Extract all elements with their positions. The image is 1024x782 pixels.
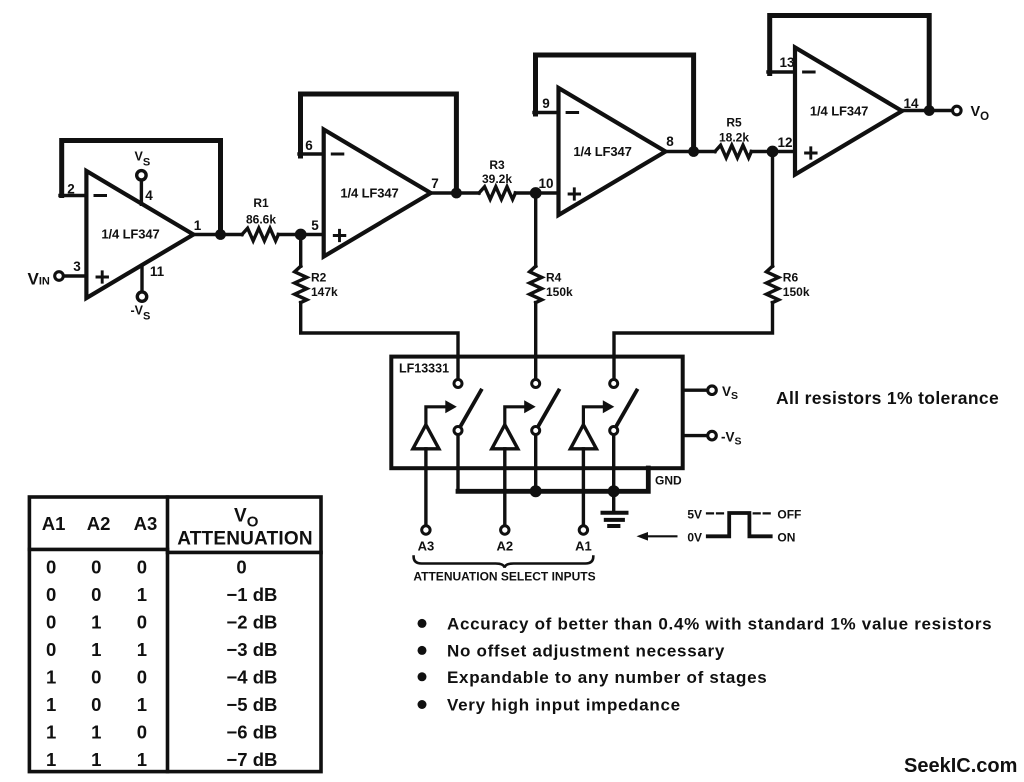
svg-text:0: 0 xyxy=(236,557,246,578)
supply terminals of LF13331 xyxy=(683,384,742,448)
svg-text:0: 0 xyxy=(46,557,56,578)
OPAMP2 xyxy=(299,94,456,257)
svg-text:150k: 150k xyxy=(783,285,810,299)
terminal A2 xyxy=(501,526,509,534)
wire inverting stub U1D pin13 xyxy=(768,70,795,73)
svg-text:0: 0 xyxy=(137,612,147,633)
junction dot feedback U1D xyxy=(924,105,935,116)
switch S2 throw xyxy=(532,427,540,435)
wire feedback rail U1D xyxy=(770,16,930,111)
table divider vertical xyxy=(166,497,170,772)
junction dot feedback U1A xyxy=(215,229,226,240)
switch S2 arm xyxy=(539,391,559,425)
terminal -VS U1A xyxy=(140,265,143,291)
buffer B1 triangle xyxy=(570,425,596,449)
svg-text:R3: R3 xyxy=(489,158,505,172)
svg-text:11: 11 xyxy=(150,264,165,279)
wire op2 output xyxy=(431,191,479,194)
plus sign U1C xyxy=(569,189,580,199)
vertical branch R2 xyxy=(295,235,458,379)
svg-text:1: 1 xyxy=(137,584,147,605)
wire feedback rail U1A xyxy=(62,141,221,235)
svg-text:0: 0 xyxy=(137,667,147,688)
ground symbol xyxy=(612,491,615,512)
wire B1 to A1 xyxy=(582,449,585,525)
wire VS terminal xyxy=(683,389,707,392)
bullet 2 dot xyxy=(418,646,427,655)
wire R2 to switch S1 xyxy=(301,303,458,379)
svg-text:All resistors 1% tolerance: All resistors 1% tolerance xyxy=(776,388,999,408)
ground bus xyxy=(458,468,682,526)
svg-text:1: 1 xyxy=(91,749,101,770)
svg-text:1: 1 xyxy=(91,722,101,743)
plus sign U1A xyxy=(97,272,108,282)
terminal VS U1A xyxy=(140,181,143,204)
minus sign U1A xyxy=(95,194,106,197)
minus sign U1B xyxy=(332,153,343,156)
svg-text:0: 0 xyxy=(46,639,56,660)
svg-text:A3: A3 xyxy=(418,539,435,554)
svg-text:13: 13 xyxy=(779,55,795,70)
switch S3 xyxy=(570,380,636,525)
bullet 3 dot xyxy=(418,672,427,681)
svg-text:Accuracy of better than 0.4% w: Accuracy of better than 0.4% with standa… xyxy=(447,615,992,634)
features list xyxy=(418,615,993,715)
wire node2 to R4 xyxy=(534,193,537,266)
node2: op2 output line xyxy=(431,158,559,199)
svg-text:−6 dB: −6 dB xyxy=(227,722,278,743)
svg-text:Very high input impedance: Very high input impedance xyxy=(447,696,681,715)
terminal VS xyxy=(708,386,717,395)
bullet 4 dot xyxy=(418,700,427,709)
table outer box xyxy=(29,497,321,772)
OPAMP3 xyxy=(534,55,694,215)
svg-text:1: 1 xyxy=(137,639,147,660)
switch S3 throw xyxy=(610,427,618,435)
terminal A3 xyxy=(422,526,430,534)
svg-text:1: 1 xyxy=(137,694,147,715)
wire S2 throw down xyxy=(534,435,537,491)
wire B3 to A3 xyxy=(424,449,427,525)
svg-text:Expandable to any number of st: Expandable to any number of stages xyxy=(447,668,767,687)
svg-text:−3 dB: −3 dB xyxy=(227,639,278,660)
svg-text:39.2k: 39.2k xyxy=(482,172,512,186)
buffer B3 triangle xyxy=(413,425,439,449)
svg-text:0: 0 xyxy=(91,694,101,715)
wire R4 to switch S2 xyxy=(534,303,537,379)
analog switch IC LF13331 box xyxy=(391,357,682,469)
svg-text:R5: R5 xyxy=(726,116,742,130)
wire R5 to op4 xyxy=(751,150,795,153)
wire inverting stub U1B pin6 xyxy=(299,152,324,155)
svg-text:A2: A2 xyxy=(87,513,111,534)
wire inverting stub U1C pin9 xyxy=(534,111,559,114)
switch S1 throw xyxy=(454,427,462,435)
resistor R5 xyxy=(715,145,751,158)
svg-text:1/4 LF347: 1/4 LF347 xyxy=(101,227,159,242)
wire R6 to switch S3 xyxy=(614,303,773,379)
svg-text:14: 14 xyxy=(903,96,919,111)
svg-text:1: 1 xyxy=(91,612,101,633)
svg-text:1/4 LF347: 1/4 LF347 xyxy=(810,104,868,119)
junction dot R6 tap xyxy=(767,146,779,158)
svg-text:LF13331: LF13331 xyxy=(399,362,449,376)
junction dot feedback U1B xyxy=(451,188,462,199)
junction dot bus S3 xyxy=(608,485,620,497)
svg-text:3: 3 xyxy=(73,259,81,274)
buffer B2 arrow xyxy=(505,407,526,425)
wire R3 to op3 xyxy=(515,191,558,194)
svg-text:8: 8 xyxy=(666,134,674,149)
svg-text:ON: ON xyxy=(777,531,795,545)
minus sign U1D xyxy=(804,71,815,74)
svg-text:A1: A1 xyxy=(42,513,66,534)
wire VIN to pin3 xyxy=(65,274,87,277)
svg-text:10: 10 xyxy=(538,176,553,191)
svg-text:5: 5 xyxy=(311,218,319,233)
terminal -VS xyxy=(708,431,717,440)
svg-text:0: 0 xyxy=(91,584,101,605)
op-amp U1D triangle xyxy=(795,48,902,175)
node1: op1 output line xyxy=(193,196,323,241)
switch S1 xyxy=(413,380,481,525)
svg-text:6: 6 xyxy=(305,138,313,153)
svg-text:2: 2 xyxy=(67,182,75,197)
OPAMP4 xyxy=(768,16,929,175)
wire S1 throw down xyxy=(456,435,459,491)
svg-text:0: 0 xyxy=(46,612,56,633)
svg-text:0: 0 xyxy=(137,722,147,743)
svg-text:−5 dB: −5 dB xyxy=(227,694,278,715)
resistor R6 xyxy=(766,266,778,302)
switch S2 pole xyxy=(532,380,540,388)
svg-text:0V: 0V xyxy=(687,531,702,545)
dashed 5V level right xyxy=(754,512,771,514)
junction dot feedback U1C xyxy=(688,146,699,157)
svg-text:OFF: OFF xyxy=(777,508,801,522)
svg-text:150k: 150k xyxy=(546,285,573,299)
resistor R1 xyxy=(242,228,278,241)
wire op3 output xyxy=(666,150,716,153)
op-amp U1C triangle xyxy=(559,88,666,215)
table header separator xyxy=(29,548,167,552)
pulse waveform xyxy=(708,513,771,536)
svg-text:R6: R6 xyxy=(783,271,799,285)
svg-text:ATTENUATION SELECT INPUTS: ATTENUATION SELECT INPUTS xyxy=(413,570,595,584)
svg-text:1/4 LF347: 1/4 LF347 xyxy=(340,186,398,201)
OPAMP1 xyxy=(28,141,221,323)
resistor R4 xyxy=(530,266,542,302)
svg-text:−4 dB: −4 dB xyxy=(227,667,278,688)
wire op4 output xyxy=(902,109,951,112)
truth table xyxy=(29,497,321,772)
svg-text:A1: A1 xyxy=(575,539,592,554)
svg-text:4: 4 xyxy=(145,188,153,203)
terminal VO xyxy=(953,106,962,115)
svg-text:R4: R4 xyxy=(546,271,562,285)
vertical branch R6 xyxy=(614,152,810,379)
vertical branch R4 xyxy=(530,193,573,379)
wire -VS terminal xyxy=(683,434,707,437)
svg-text:1: 1 xyxy=(46,667,56,688)
svg-text:1: 1 xyxy=(91,639,101,660)
control waveform xyxy=(637,508,802,545)
minus sign U1C xyxy=(567,111,578,114)
svg-text:−2 dB: −2 dB xyxy=(227,612,278,633)
switch S2 xyxy=(492,380,559,525)
svg-text:18.2k: 18.2k xyxy=(719,131,749,145)
wire inverting stub U1A pin2 xyxy=(60,194,86,197)
wire R1 to op2 xyxy=(278,233,323,236)
svg-text:86.6k: 86.6k xyxy=(246,213,276,227)
svg-text:−1 dB: −1 dB xyxy=(227,584,278,605)
node3: op3 output line xyxy=(666,116,796,158)
wire op1 output xyxy=(193,233,242,236)
wire B2 to A2 xyxy=(503,449,506,525)
svg-text:1: 1 xyxy=(46,722,56,743)
junction dot bus S2 xyxy=(530,485,542,497)
svg-text:No offset adjustment necessary: No offset adjustment necessary xyxy=(447,642,725,661)
svg-text:R2: R2 xyxy=(311,271,327,285)
buffer B3 arrow xyxy=(426,407,447,425)
svg-text:A2: A2 xyxy=(496,539,513,554)
svg-text:−7 dB: −7 dB xyxy=(227,749,278,770)
svg-text:R1: R1 xyxy=(253,196,269,210)
IC LF13331 xyxy=(391,357,682,469)
op-amp U1B triangle xyxy=(324,130,431,257)
plus sign U1D xyxy=(806,148,817,158)
buffer B1 arrow xyxy=(583,407,604,425)
svg-text:0: 0 xyxy=(137,557,147,578)
junction dot R2 tap xyxy=(295,229,307,241)
op-amp U1A triangle xyxy=(86,171,193,298)
arrow to waveform xyxy=(644,535,676,537)
svg-text:0: 0 xyxy=(91,667,101,688)
resistor R2 xyxy=(295,266,307,302)
svg-text:A3: A3 xyxy=(134,513,158,534)
svg-text:7: 7 xyxy=(431,176,439,191)
svg-text:5V: 5V xyxy=(687,508,702,522)
switch S3 arm xyxy=(617,391,637,425)
node4: output VO xyxy=(902,104,989,123)
svg-text:1: 1 xyxy=(194,218,202,233)
bullet 1 dot xyxy=(418,619,427,628)
wire feedback rail U1B xyxy=(301,94,457,193)
junction dot R4 tap xyxy=(530,187,542,199)
resistor R3 xyxy=(479,187,515,200)
svg-text:GND: GND xyxy=(655,474,682,488)
svg-text:1: 1 xyxy=(46,749,56,770)
svg-text:0: 0 xyxy=(91,557,101,578)
switch S1 pole xyxy=(454,380,462,388)
control inputs A3 A2 A1 xyxy=(413,526,595,584)
svg-text:SeekIC.com: SeekIC.com xyxy=(904,755,1017,777)
svg-text:1/4 LF347: 1/4 LF347 xyxy=(573,144,631,159)
switch S1 arm xyxy=(462,391,482,425)
dashed 5V level left xyxy=(707,512,727,514)
svg-text:ATTENUATION: ATTENUATION xyxy=(177,529,313,550)
svg-text:1: 1 xyxy=(137,749,147,770)
wire node3 to R6 xyxy=(771,152,774,267)
brace attenuation select xyxy=(414,557,594,568)
terminal A1 xyxy=(579,526,587,534)
table row 1 xyxy=(46,557,277,771)
switch S3 pole xyxy=(610,380,618,388)
svg-text:147k: 147k xyxy=(311,285,338,299)
svg-text:0: 0 xyxy=(46,584,56,605)
wire ground bus xyxy=(458,468,648,491)
plus sign U1B xyxy=(334,230,345,240)
wire node1 to R2 xyxy=(299,235,302,267)
svg-text:12: 12 xyxy=(777,135,792,150)
terminal VIN xyxy=(55,272,64,281)
wire S3 throw down xyxy=(612,435,615,491)
svg-text:1: 1 xyxy=(46,694,56,715)
buffer B2 triangle xyxy=(492,425,518,449)
wire feedback rail U1C xyxy=(536,55,694,152)
svg-text:9: 9 xyxy=(542,96,550,111)
